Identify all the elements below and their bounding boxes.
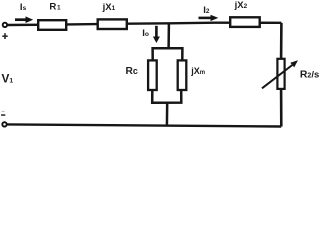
svg-text:Rc: Rc: [126, 66, 138, 77]
terminal circle bottom-left (-): [2, 122, 6, 126]
inductor jXm: [178, 60, 187, 90]
label jX1: [102, 2, 116, 13]
wire center drop (parallel branch to bottom rail): [166, 103, 169, 126]
resistor R1: [38, 20, 66, 30]
wire right vertical (bottom, R2/s to bottom rail): [280, 90, 283, 127]
resistor Rc: [148, 60, 157, 90]
inductor jX2: [230, 17, 260, 27]
variable resistor R2/s diagonal arrow: [262, 60, 298, 88]
label + (positive terminal): [2, 33, 7, 39]
label Is: [20, 2, 27, 13]
label jX2: [234, 0, 248, 11]
label - (negative terminal): [1, 111, 5, 116]
label R1: [49, 2, 61, 13]
label Rc: [126, 66, 138, 77]
label V1: [2, 72, 14, 86]
terminal circle top-left (+): [3, 23, 7, 27]
inductor jX1: [98, 19, 127, 29]
wire bottom bar of parallel branch: [152, 91, 181, 103]
wire magnetizing-branch feed (junction to top bar): [167, 24, 170, 50]
current arrow I0 (downward): [153, 26, 160, 43]
label I0: [142, 28, 149, 39]
label I2: [203, 5, 210, 16]
wire bottom rail: [8, 124, 282, 126]
wire right vertical (top, jX2 to R2/s): [280, 23, 283, 59]
current arrow I2: [199, 15, 219, 21]
label R2/s: [300, 69, 319, 80]
label jXm: [190, 66, 205, 76]
wire top rail: [8, 23, 282, 25]
current arrow Is: [15, 16, 33, 23]
variable resistor R2/s body: [277, 59, 284, 89]
wire top bar of parallel branch: [153, 48, 183, 59]
